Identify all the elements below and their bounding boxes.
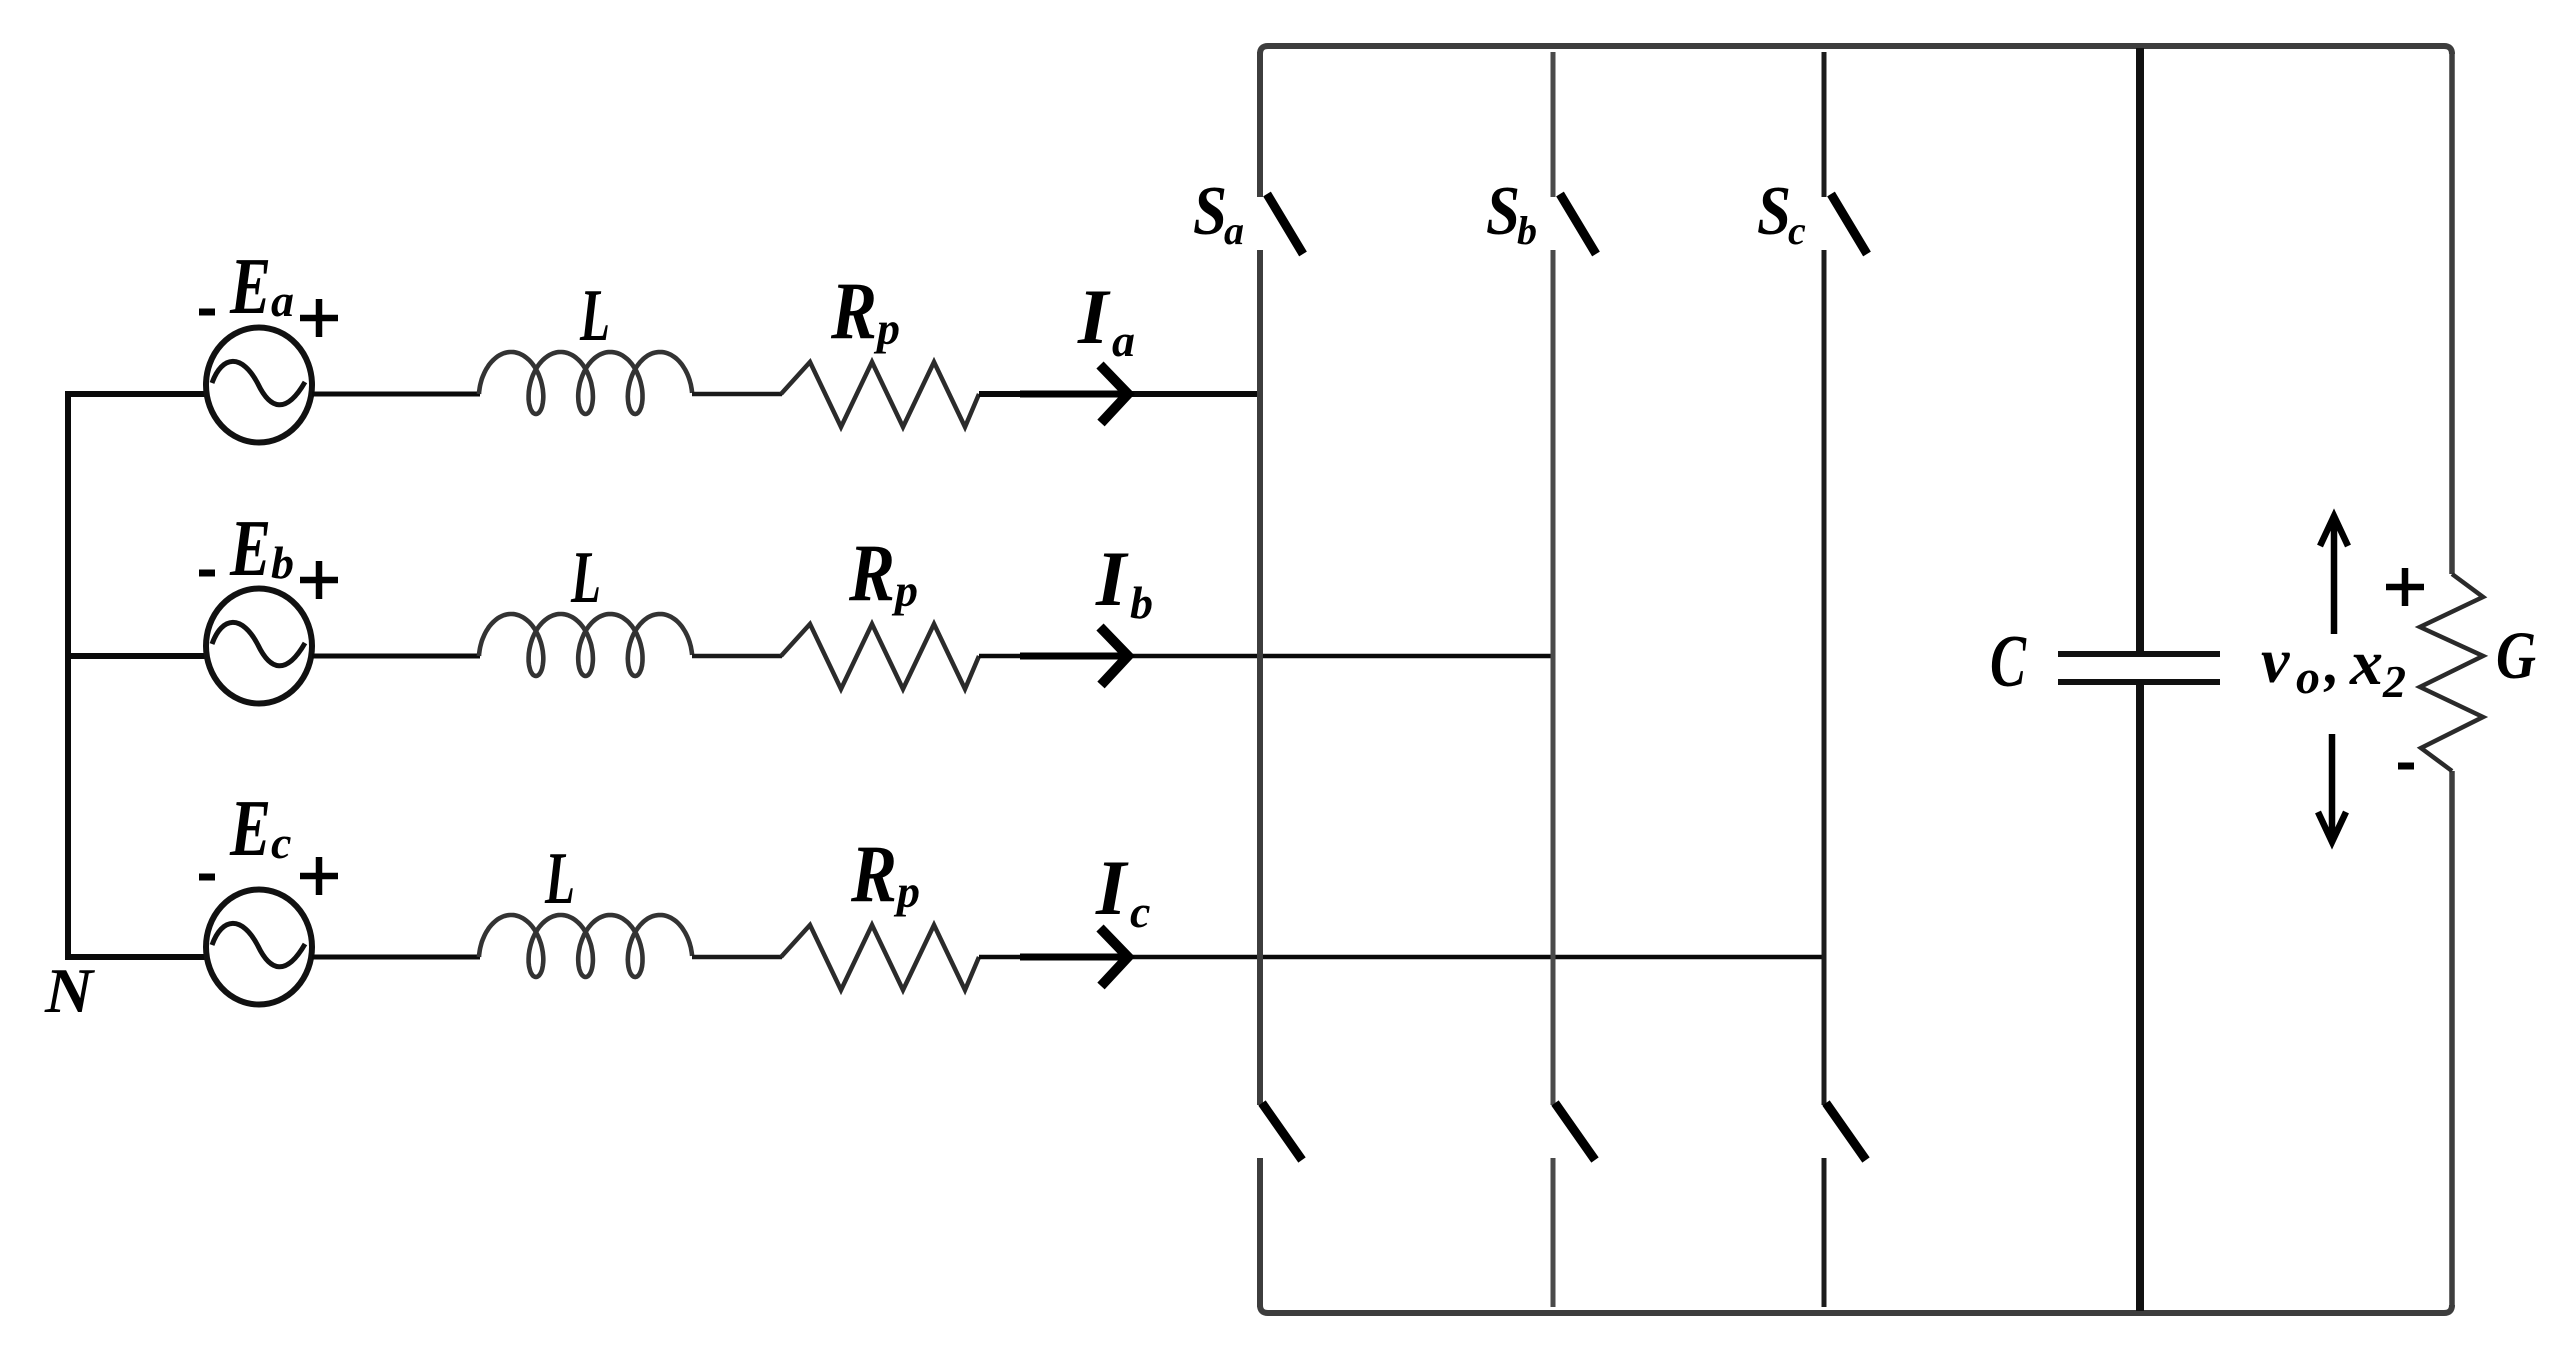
resistor Rp (phase c)	[781, 925, 979, 990]
switch Sb leg wire	[1551, 52, 1556, 1307]
svg-text:R: R	[850, 828, 897, 919]
switch Sa leg wire	[1257, 52, 1263, 1307]
svg-text:a: a	[1112, 315, 1135, 366]
wire Ea to L	[312, 392, 480, 397]
resistor Rp (phase b)	[781, 624, 979, 689]
switch Sb lower blade	[1555, 1103, 1595, 1160]
svg-text:N: N	[44, 955, 96, 1026]
resistor Rp (phase a)	[781, 362, 979, 427]
label - (output)	[2398, 763, 2414, 770]
wire Rp to Sb leg	[979, 654, 1551, 659]
inductor L (phase c)	[479, 915, 692, 977]
svg-text:v: v	[2261, 625, 2290, 696]
svg-text:b: b	[271, 537, 294, 588]
wire Rp to Sc leg	[979, 955, 1822, 960]
switch Sc lower blade	[1826, 1103, 1866, 1160]
svg-text:,: ,	[2323, 631, 2340, 696]
wire L to Rp (phase b)	[692, 654, 782, 659]
switch Sa lower blade	[1262, 1103, 1302, 1160]
switch Sc upper blade	[1831, 194, 1867, 254]
switch Sa upper blade	[1267, 194, 1303, 254]
svg-text:p: p	[891, 565, 918, 616]
svg-text:a: a	[1224, 208, 1244, 253]
svg-text:E: E	[229, 505, 271, 593]
svg-text:E: E	[229, 243, 271, 331]
svg-text:L: L	[579, 275, 610, 357]
svg-text:E: E	[229, 785, 271, 873]
node N bus wire	[65, 394, 205, 957]
svg-text:L: L	[570, 537, 601, 619]
output voltage arrow up	[2320, 516, 2348, 634]
svg-text:G: G	[2496, 617, 2536, 693]
svg-text:o: o	[2296, 651, 2320, 704]
wire L to Rp (phase a)	[692, 392, 782, 397]
voltage source Ea	[206, 328, 312, 443]
svg-text:R: R	[830, 265, 877, 356]
label Ec with polarity	[199, 785, 338, 895]
switch Sc leg wire	[1822, 52, 1827, 1307]
voltage source Ec	[206, 890, 312, 1005]
svg-text:R: R	[848, 527, 895, 618]
wire Eb to L	[312, 654, 480, 659]
capacitor C	[2058, 48, 2220, 1311]
converter box top DC rail wire	[1260, 46, 2452, 54]
svg-text:p: p	[873, 303, 900, 354]
label + (output)	[2386, 568, 2424, 606]
output voltage arrow down	[2318, 734, 2346, 842]
switch Sb upper blade	[1560, 194, 1596, 254]
wire Ec to L	[312, 955, 480, 960]
inductor L (phase a)	[479, 352, 692, 414]
svg-text:C: C	[1990, 621, 2027, 703]
svg-text:S: S	[1193, 173, 1227, 250]
svg-text:I: I	[1077, 273, 1111, 360]
wire Rp to Sa leg	[979, 391, 1257, 397]
label Eb with polarity	[199, 505, 338, 599]
svg-text:S: S	[1757, 173, 1791, 250]
svg-text:c: c	[1130, 886, 1150, 937]
inductor L (phase b)	[479, 614, 692, 676]
svg-text:x: x	[2349, 627, 2383, 698]
svg-text:2: 2	[2382, 656, 2406, 707]
converter box bottom DC rail wire	[1260, 1305, 2452, 1313]
svg-text:b: b	[1130, 577, 1153, 628]
svg-text:c: c	[271, 817, 291, 868]
load resistor G leg wire	[2449, 52, 2455, 1307]
svg-text:p: p	[893, 866, 920, 917]
svg-text:I: I	[1095, 535, 1129, 622]
wire L to Rp (phase c)	[692, 955, 782, 960]
svg-text:L: L	[544, 838, 575, 920]
svg-text:S: S	[1486, 173, 1520, 250]
current arrow Ib	[1100, 627, 1128, 685]
svg-text:c: c	[1788, 208, 1806, 253]
current arrow Ia	[1100, 365, 1128, 423]
label Ea with polarity	[199, 243, 338, 337]
svg-text:b: b	[1517, 208, 1537, 253]
svg-text:I: I	[1095, 844, 1129, 931]
svg-text:a: a	[271, 275, 294, 326]
voltage source Eb	[206, 589, 312, 704]
current arrow Ic	[1100, 928, 1128, 986]
load resistor G zigzag	[2420, 574, 2483, 771]
